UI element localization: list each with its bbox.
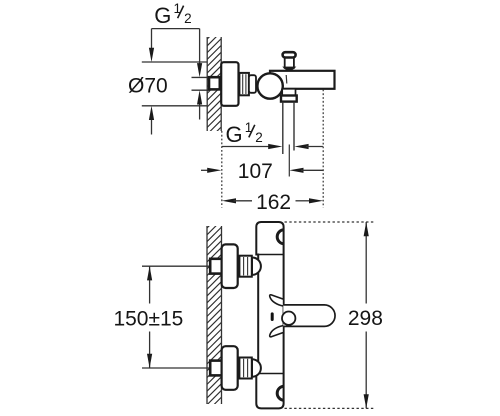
svg-text:298: 298 <box>348 307 383 330</box>
svg-text:G: G <box>154 3 171 28</box>
svg-text:2: 2 <box>184 11 192 26</box>
svg-text:150±15: 150±15 <box>113 307 183 330</box>
svg-text:G: G <box>226 122 243 147</box>
svg-text:Ø70: Ø70 <box>128 74 168 97</box>
svg-text:107: 107 <box>238 160 273 183</box>
svg-text:162: 162 <box>256 191 291 214</box>
svg-text:2: 2 <box>255 130 263 145</box>
